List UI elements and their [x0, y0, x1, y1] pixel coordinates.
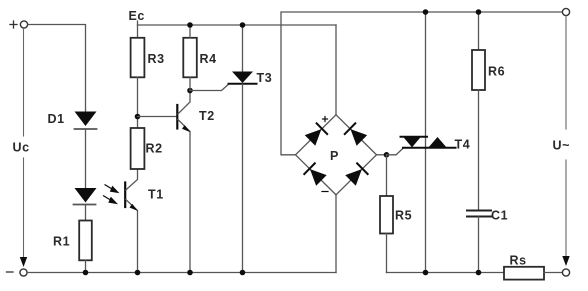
- resistor R6: [472, 50, 485, 90]
- triac T4: [401, 12, 456, 273]
- bridge diode top-left: [305, 123, 327, 145]
- resistor R4: [183, 38, 197, 78]
- svg-text:R5: R5: [395, 209, 412, 223]
- svg-text:T1: T1: [148, 188, 164, 202]
- node R3/R2/T2-base: [135, 114, 141, 120]
- node R1 bottom: [83, 270, 89, 276]
- node T3 cathode: [240, 270, 246, 276]
- wire T2 base: [138, 116, 177, 118]
- resistor R5: [380, 196, 393, 234]
- wire AC top line: [281, 12, 563, 155]
- resistor R1: [79, 221, 92, 261]
- terminal bottom-right: [562, 269, 569, 276]
- wire R3 to R2: [137, 77, 139, 128]
- bridge diode bottom-right: [345, 163, 367, 185]
- resistor R3: [131, 38, 145, 78]
- wire T4 gate: [387, 148, 404, 155]
- wire bridge bottom to rail: [335, 195, 337, 273]
- svg-text:R6: R6: [488, 65, 505, 79]
- svg-text:R4: R4: [200, 52, 217, 66]
- svg-text:D1: D1: [48, 112, 65, 126]
- node T4 bottom: [423, 270, 429, 276]
- svg-text:R1: R1: [53, 235, 70, 249]
- wire D1 to LED: [85, 129, 87, 188]
- wire R1 to bottom rail: [85, 260, 87, 272]
- bottom rail left: [27, 272, 336, 274]
- bridge - mark: [322, 191, 328, 193]
- node T3 top on Ec rail: [240, 22, 246, 28]
- svg-text:U~: U~: [553, 139, 571, 153]
- wire R6 top: [478, 12, 480, 50]
- capacitor C1: [467, 211, 491, 217]
- node bridge/R5/T4-gate: [384, 152, 390, 158]
- diode D1: [75, 112, 97, 130]
- Ec rail: [138, 24, 337, 26]
- svg-text:Ec: Ec: [129, 9, 146, 23]
- wire C1 bottom: [478, 217, 480, 273]
- wire LED to R1: [85, 205, 87, 221]
- wire R4 top: [189, 25, 191, 38]
- svg-text:P: P: [330, 149, 339, 163]
- terminal + (top-left): [10, 21, 28, 28]
- optocoupler LED (of T1): [74, 188, 97, 205]
- wire bridge right to node: [377, 154, 387, 156]
- light arrows of optocoupler: [104, 185, 120, 204]
- svg-text:Rs: Rs: [510, 254, 527, 268]
- node R6 top on AC line: [476, 9, 482, 15]
- svg-text:T3: T3: [257, 71, 273, 85]
- terminal top-right: [562, 8, 569, 15]
- voltage arrow Uc: [20, 29, 27, 268]
- svg-text:R2: R2: [146, 142, 163, 156]
- bridge + mark: [323, 117, 328, 122]
- node T1 emitter: [135, 270, 141, 276]
- voltage arrow U~: [562, 16, 569, 266]
- wire Ec to R3: [137, 21, 139, 38]
- wire Rs to terminal: [544, 272, 562, 274]
- bridge rectifier P : edges: [296, 115, 377, 195]
- node R4/T2-collector/T3-gate: [187, 88, 193, 94]
- wire R4 bottom: [189, 77, 191, 90]
- wire Ec rail corner to bridge top: [335, 25, 337, 115]
- svg-text:R3: R3: [148, 52, 165, 66]
- svg-text:T4: T4: [455, 138, 471, 152]
- wire R6 to C1: [478, 90, 480, 210]
- resistor R2: [131, 128, 145, 169]
- thyristor T3: [229, 25, 257, 273]
- svg-text:Uc: Uc: [13, 141, 30, 155]
- svg-text:T2: T2: [199, 109, 215, 123]
- bridge diode bottom-left: [304, 163, 326, 185]
- wire R5 bottom: [386, 234, 388, 273]
- bridge diode top-right: [345, 123, 367, 145]
- node R4 top on Ec rail: [187, 22, 193, 28]
- svg-text:C1: C1: [491, 209, 508, 223]
- wire T3 gate: [190, 84, 229, 90]
- node T4 top on AC line: [423, 9, 429, 15]
- node T2 emitter: [187, 270, 193, 276]
- terminal - (bottom-left): [7, 269, 28, 276]
- wire R5 top: [386, 155, 388, 196]
- phototransistor T1: [125, 169, 138, 273]
- bottom rail right: [387, 272, 505, 274]
- node C1 bottom: [476, 270, 482, 276]
- wire top-left rail: [28, 25, 86, 112]
- resistor Rs: [504, 267, 544, 280]
- transistor T2: [177, 91, 190, 273]
